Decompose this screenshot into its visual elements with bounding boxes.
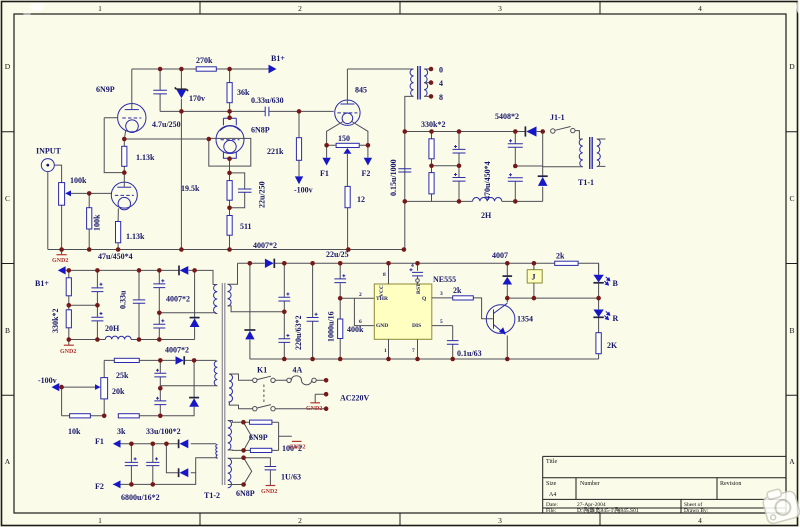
svg-text:J: J (532, 273, 536, 282)
svg-text:B: B (5, 326, 10, 335)
svg-text:0.1u/63: 0.1u/63 (457, 349, 482, 358)
svg-text:B: B (789, 326, 794, 335)
svg-text:170v: 170v (189, 94, 205, 103)
svg-text:T1-2: T1-2 (204, 491, 220, 500)
svg-text:6N8P: 6N8P (236, 489, 255, 498)
svg-text:GND2: GND2 (306, 406, 322, 412)
svg-text:400k: 400k (347, 325, 364, 334)
svg-text:Number: Number (580, 481, 600, 487)
svg-text:20k: 20k (112, 387, 125, 396)
svg-text:220u/63*2: 220u/63*2 (294, 315, 303, 350)
svg-text:6N8P: 6N8P (251, 126, 270, 135)
svg-text:2: 2 (359, 292, 362, 298)
svg-text:C: C (5, 194, 10, 203)
svg-text:GND2: GND2 (289, 445, 305, 451)
svg-text:10k: 10k (68, 427, 81, 436)
svg-text:RST: RST (416, 283, 422, 294)
svg-text:6800u/16*2: 6800u/16*2 (121, 493, 160, 502)
svg-text:GND2: GND2 (60, 349, 76, 355)
svg-text:Drawn By:: Drawn By: (684, 508, 709, 514)
svg-text:2: 2 (298, 4, 302, 13)
svg-text:1: 1 (98, 4, 102, 13)
svg-text:1.13k: 1.13k (136, 153, 155, 162)
svg-text:4007*2: 4007*2 (166, 295, 190, 304)
svg-text:-100v: -100v (294, 186, 313, 195)
svg-text:221k: 221k (267, 147, 284, 156)
svg-text:2k: 2k (556, 252, 565, 261)
svg-text:150: 150 (338, 134, 350, 143)
svg-text:12: 12 (357, 195, 365, 204)
svg-text:1: 1 (384, 348, 387, 354)
svg-text:Size: Size (546, 481, 557, 487)
svg-text:A4: A4 (549, 492, 556, 498)
svg-text:GND2: GND2 (52, 258, 68, 264)
svg-text:0.33u: 0.33u (119, 290, 128, 309)
svg-text:330k*2: 330k*2 (51, 309, 60, 333)
svg-text:4007: 4007 (492, 251, 508, 260)
svg-text:2k: 2k (453, 286, 462, 295)
svg-text:C: C (789, 194, 794, 203)
svg-text:33u/100*2: 33u/100*2 (146, 427, 181, 436)
svg-text:4007*2: 4007*2 (253, 241, 277, 250)
svg-text:22u/25: 22u/25 (326, 250, 349, 259)
svg-text:100k: 100k (70, 176, 87, 185)
svg-text:Date:: Date: (546, 502, 558, 508)
svg-text:1000u/16: 1000u/16 (327, 311, 336, 342)
svg-text:845: 845 (355, 86, 367, 95)
svg-text:36k: 36k (237, 88, 250, 97)
svg-text:Title: Title (546, 459, 557, 465)
svg-text:J1-1: J1-1 (550, 113, 565, 122)
svg-text:7: 7 (412, 348, 415, 354)
svg-text:File:: File: (546, 508, 557, 514)
svg-text:1354: 1354 (517, 315, 533, 324)
svg-text:F1: F1 (320, 169, 329, 178)
svg-text:0.33u/630: 0.33u/630 (251, 96, 284, 105)
svg-text:4: 4 (698, 4, 702, 13)
svg-text:F2: F2 (362, 169, 371, 178)
svg-text:AC220V: AC220V (340, 394, 370, 403)
svg-text:511: 511 (240, 222, 252, 231)
svg-text:GND2: GND2 (261, 489, 277, 495)
svg-text:2H: 2H (481, 211, 492, 220)
svg-text:330k*2: 330k*2 (421, 120, 445, 129)
svg-text:2K: 2K (607, 341, 618, 350)
svg-text:THR: THR (376, 296, 389, 302)
svg-text:1: 1 (98, 516, 102, 525)
svg-text:INPUT: INPUT (36, 147, 62, 156)
svg-text:470u/450*4: 470u/450*4 (483, 161, 492, 200)
svg-text:20H: 20H (105, 324, 120, 333)
svg-text:T1-1: T1-1 (578, 178, 594, 187)
svg-text:0: 0 (439, 66, 443, 75)
svg-text:R: R (613, 314, 619, 323)
svg-text:4: 4 (439, 79, 443, 88)
svg-text:6N9P: 6N9P (249, 433, 268, 442)
svg-text:NE555: NE555 (433, 275, 456, 284)
svg-text:6: 6 (359, 319, 362, 325)
svg-text:A: A (5, 457, 11, 466)
svg-text:8: 8 (439, 93, 443, 102)
svg-text:100k: 100k (93, 214, 102, 231)
svg-text:19.5k: 19.5k (181, 184, 200, 193)
svg-text:Revision: Revision (720, 481, 741, 487)
svg-text:2: 2 (298, 516, 302, 525)
svg-text:1.13k: 1.13k (126, 232, 145, 241)
svg-text:22u/250: 22u/250 (258, 181, 267, 208)
svg-text:Sheet of: Sheet of (684, 501, 702, 508)
svg-text:-100v: -100v (38, 376, 57, 385)
svg-text:DIS: DIS (412, 323, 421, 329)
svg-text:0.15u/1000: 0.15u/1000 (389, 159, 398, 196)
svg-text:8: 8 (383, 272, 386, 278)
svg-text:K1: K1 (257, 366, 267, 375)
svg-text:B1+: B1+ (271, 54, 285, 63)
svg-text:25k: 25k (116, 371, 129, 380)
svg-text:5: 5 (440, 319, 443, 325)
svg-text:47u/450*4: 47u/450*4 (98, 252, 133, 261)
svg-text:4007*2: 4007*2 (165, 346, 189, 355)
svg-text:GND: GND (376, 323, 388, 329)
svg-text:D: D (789, 62, 795, 71)
svg-text:3k: 3k (117, 427, 126, 436)
svg-text:4.7u/250: 4.7u/250 (152, 120, 181, 129)
svg-text:270k: 270k (196, 56, 213, 65)
svg-text:27-Apr-2004: 27-Apr-2004 (577, 502, 606, 508)
svg-text:D: D (5, 62, 11, 71)
svg-text:A: A (789, 457, 795, 466)
svg-text:F1: F1 (95, 437, 104, 446)
svg-text:1U/63: 1U/63 (281, 473, 301, 482)
svg-text:3: 3 (498, 516, 502, 525)
svg-text:4A: 4A (293, 366, 303, 375)
svg-text:3: 3 (440, 291, 443, 297)
svg-text:5408*2: 5408*2 (495, 112, 519, 121)
svg-text:D:\陶難宽845-1\陶845.S01: D:\陶難宽845-1\陶845.S01 (577, 506, 639, 514)
svg-text:B1+: B1+ (35, 279, 49, 288)
svg-text:F2: F2 (95, 482, 104, 491)
svg-text:6N9P: 6N9P (96, 85, 115, 94)
svg-text:3: 3 (498, 4, 502, 13)
svg-text:4: 4 (411, 263, 414, 269)
svg-text:Q: Q (422, 296, 427, 302)
svg-text:4: 4 (698, 516, 702, 525)
svg-text:B: B (613, 279, 619, 288)
